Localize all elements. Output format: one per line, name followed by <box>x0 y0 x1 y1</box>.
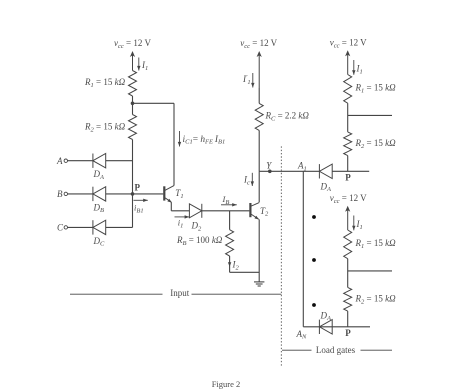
svg-text:Input: Input <box>170 288 189 298</box>
svg-text:P: P <box>135 183 141 193</box>
svg-text:B: B <box>57 189 63 199</box>
svg-text:A: A <box>56 156 63 166</box>
svg-text:C: C <box>57 223 64 233</box>
svg-text:P: P <box>345 328 351 338</box>
svg-text:Load gates: Load gates <box>316 345 356 355</box>
svg-text:Figure 2: Figure 2 <box>212 379 241 389</box>
svg-text:P: P <box>345 172 351 182</box>
